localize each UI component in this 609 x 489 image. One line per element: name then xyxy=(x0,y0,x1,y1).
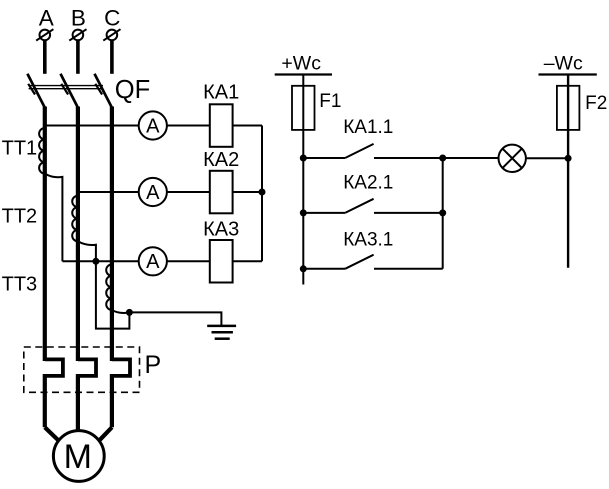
wire ammeter row 3 xyxy=(62,260,138,262)
svg-text:A: A xyxy=(39,6,54,31)
wire KA1 to bus xyxy=(233,125,262,127)
svg-text:TT2: TT2 xyxy=(2,206,38,228)
wire to lamp xyxy=(443,157,499,159)
contact KA1.1 xyxy=(303,144,442,158)
junction left bus row 1 xyxy=(300,155,307,162)
heater element phase A xyxy=(45,359,63,376)
thermal relay P box xyxy=(24,347,140,392)
svg-text:КА2: КА2 xyxy=(203,149,239,171)
wire control right bus xyxy=(567,75,569,268)
circuit breaker QF pole C xyxy=(95,74,112,108)
terminal B xyxy=(69,29,86,40)
svg-text:М: М xyxy=(64,438,92,476)
ammeter PA2 xyxy=(139,178,167,206)
svg-text:–Wc: –Wc xyxy=(544,53,583,75)
wire phase B to breaker xyxy=(76,40,80,74)
junction TT return xyxy=(92,258,99,265)
svg-text:КА1: КА1 xyxy=(203,82,239,104)
svg-text:A: A xyxy=(146,182,160,204)
ammeter PA1 xyxy=(139,111,167,139)
svg-text:КА1.1: КА1.1 xyxy=(343,117,393,138)
motor M xyxy=(53,431,104,482)
junction row 2 right xyxy=(439,209,446,216)
wire phase C main xyxy=(110,107,114,362)
control bus +Wc xyxy=(275,73,332,75)
wire ammeter row 1 xyxy=(45,125,139,127)
svg-text:TT1: TT1 xyxy=(2,138,38,160)
wire ammeter row 2 xyxy=(78,191,139,193)
junction TT3 return xyxy=(126,309,133,316)
wire ammeter PA3 to relay KA3 xyxy=(167,260,210,262)
wire neutral jog xyxy=(96,261,129,328)
relay coil KA2 xyxy=(210,171,233,214)
svg-text:A: A xyxy=(146,251,160,273)
junction bus KA2 xyxy=(259,189,266,196)
relay coil KA3 xyxy=(210,240,233,283)
wire phase A to motor xyxy=(45,427,58,440)
lamp HL xyxy=(499,145,526,172)
junction right bus xyxy=(565,155,572,162)
wire phase B main xyxy=(76,107,80,362)
svg-text:КА3.1: КА3.1 xyxy=(343,229,393,250)
wire neutral to ground xyxy=(129,312,221,326)
current transformer TT1 xyxy=(39,128,45,174)
wire KA3 to bus xyxy=(233,260,262,262)
svg-text:QF: QF xyxy=(115,76,150,104)
wire relay return bus xyxy=(261,126,263,262)
wire phase C to breaker xyxy=(110,40,114,74)
wire phase A main xyxy=(43,107,47,362)
svg-text:TT3: TT3 xyxy=(2,274,38,296)
wire phase A below box xyxy=(43,374,47,427)
ground xyxy=(207,326,236,339)
fuse F1 xyxy=(292,86,315,130)
wire KA2 to bus xyxy=(233,191,262,193)
svg-text:B: B xyxy=(71,6,86,31)
junction left bus row 3 xyxy=(300,265,307,272)
circuit breaker QF pole A xyxy=(27,74,44,108)
wire phase C below box xyxy=(110,374,114,427)
wire phase B below box xyxy=(76,374,80,432)
wire ammeter PA2 to relay KA2 xyxy=(167,191,210,193)
svg-text:C: C xyxy=(104,6,120,31)
QF linkage bar xyxy=(29,86,103,89)
junction row 1 right xyxy=(439,155,446,162)
wire ammeter PA1 to relay KA1 xyxy=(167,125,210,127)
heater element phase B xyxy=(78,359,96,376)
wire TT1 secondary return xyxy=(45,174,63,262)
svg-text:КА3: КА3 xyxy=(203,219,239,241)
current transformer TT3 xyxy=(106,264,112,310)
wire contacts collector xyxy=(442,158,444,269)
contact KA2.1 xyxy=(303,199,442,213)
current transformer TT2 xyxy=(72,196,78,242)
wire TT3 secondary return xyxy=(112,310,129,313)
svg-text:Р: Р xyxy=(145,351,162,379)
wire lamp to right bus xyxy=(526,157,568,159)
contact KA3.1 xyxy=(303,255,442,269)
terminal A xyxy=(36,29,53,40)
wire control left bus xyxy=(302,75,304,285)
ammeter PA3 xyxy=(139,247,167,275)
circuit breaker QF pole B xyxy=(61,74,78,108)
relay coil KA1 xyxy=(210,104,233,147)
wire phase C to motor xyxy=(100,427,112,440)
wire phase A to breaker xyxy=(43,40,47,74)
svg-text:+Wc: +Wc xyxy=(281,53,321,75)
terminal C xyxy=(103,29,120,40)
svg-text:F2: F2 xyxy=(585,93,607,114)
svg-text:A: A xyxy=(146,115,160,137)
fuse F2 xyxy=(557,86,580,130)
svg-text:КА2.1: КА2.1 xyxy=(343,173,393,194)
control bus -Wc xyxy=(539,73,597,75)
wire TT2 secondary return xyxy=(78,241,96,261)
heater element phase C xyxy=(112,359,130,376)
svg-text:F1: F1 xyxy=(319,91,341,112)
junction left bus row 2 xyxy=(300,209,307,216)
